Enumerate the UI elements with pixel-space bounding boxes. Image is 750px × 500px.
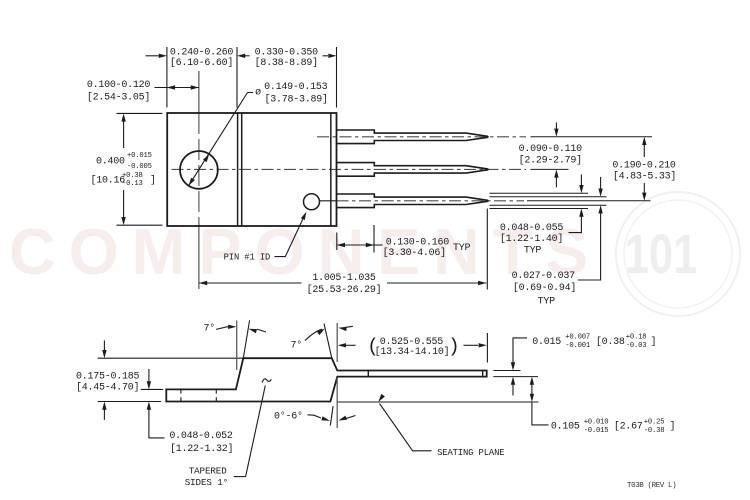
dim 0.240-0.260 extension lines [166, 47, 168, 108]
0-6 deg right arrow [345, 416, 356, 419]
seating plane leader [380, 404, 432, 451]
svg-text:+0.25: +0.25 [644, 418, 665, 426]
svg-text:T03B (REV L): T03B (REV L) [627, 482, 676, 490]
svg-text:[1.22-1.32]: [1.22-1.32] [170, 443, 233, 455]
svg-text:TYP: TYP [524, 246, 542, 257]
svg-text:0.105: 0.105 [551, 422, 580, 433]
dim 0.105 arrows and leader [531, 382, 533, 396]
dim 0.525-0.555 extension line [486, 333, 488, 363]
hidden hole edge dashes in tab [180, 389, 182, 401]
svg-text:]: ] [150, 174, 156, 186]
svg-text:7°: 7° [291, 339, 303, 351]
dim 0.015 extension lines [493, 370, 520, 372]
svg-text:[0.69-0.94]: [0.69-0.94] [513, 282, 576, 294]
svg-text:0.525-0.555: 0.525-0.555 [380, 337, 444, 348]
svg-text:0.130-0.160: 0.130-0.160 [386, 237, 450, 248]
svg-text:[10.16: [10.16 [91, 174, 126, 186]
svg-text:ø: ø [255, 87, 261, 98]
svg-text:0°-6°: 0°-6° [274, 411, 303, 423]
pin 1 marker to body edge line [320, 200, 337, 202]
svg-text:0.048-0.052: 0.048-0.052 [169, 431, 233, 442]
pin 1 leader [275, 216, 305, 257]
svg-text:-0.38: -0.38 [644, 427, 665, 435]
body bottom extension line [98, 401, 161, 403]
lead 1 centerline extension [531, 136, 653, 138]
body right inner line [330, 113, 332, 226]
left 7 deg slant extension [243, 320, 249, 358]
dim 1.005-1.035 [486, 209, 488, 290]
svg-text:[0.38: [0.38 [596, 336, 625, 348]
lead 3 centerline extension [527, 200, 651, 202]
svg-text:SEATING PLANE: SEATING PLANE [437, 448, 504, 458]
lead 3 centerline [337, 200, 525, 202]
dim 0.100-0.120 leader and arrows [155, 87, 199, 89]
body top extension line [98, 357, 243, 359]
svg-text:[25.53-26.29]: [25.53-26.29] [307, 284, 382, 296]
dim 0.048-0.055 arrows and leader [580, 175, 582, 188]
lead mid tick [367, 371, 369, 377]
dim 0.048-0.052 arrows and leader [148, 369, 150, 384]
0-6 deg leader arrow [308, 415, 322, 418]
lead 1 [337, 130, 489, 144]
svg-text:-0.015: -0.015 [584, 427, 609, 435]
svg-text:0.015: 0.015 [532, 337, 561, 348]
0-6 deg slant extension [330, 406, 333, 425]
dim 0.400 extension lines [117, 112, 163, 114]
dim 0.400 vertical dimension line with arrows [123, 119, 125, 148]
svg-text:0.240-0.260: 0.240-0.260 [170, 47, 234, 58]
svg-text:]: ] [670, 421, 676, 433]
svg-text:]: ] [651, 336, 657, 348]
svg-text:[6.10-6.60]: [6.10-6.60] [170, 57, 233, 69]
dim 0.525-0.555 arrows [340, 344, 356, 346]
svg-text:1.005-1.035: 1.005-1.035 [312, 273, 376, 284]
lead 3 wide-bottom extension [490, 208, 589, 210]
left 7 deg vertical reference [236, 321, 238, 371]
svg-text:[13.34-14.10]: [13.34-14.10] [375, 346, 450, 358]
svg-text:PIN #1 ID: PIN #1 ID [224, 253, 271, 263]
right 7 deg slant extension [324, 324, 332, 359]
lead 3 narrow-top extension [490, 196, 607, 198]
left 7 deg leader arrow [216, 327, 229, 330]
lead 3 narrow-bottom extension [490, 204, 607, 206]
svg-text:[2.67: [2.67 [614, 421, 643, 433]
0-6 deg vertical reference [336, 378, 338, 428]
lead 3 wide-top extension [490, 192, 589, 194]
svg-text:7°: 7° [204, 323, 216, 335]
right 7 deg right arrow [345, 326, 353, 327]
svg-text:[2.54-3.05]: [2.54-3.05] [87, 92, 150, 104]
svg-text:[4.83-5.33]: [4.83-5.33] [613, 170, 676, 182]
svg-text:0.027-0.037: 0.027-0.037 [512, 271, 576, 282]
right 7 deg vertical reference [336, 323, 338, 362]
svg-text:-0.005: -0.005 [127, 163, 152, 171]
hole diameter leader [189, 93, 248, 186]
right 7 deg curved leader arrow [305, 329, 322, 340]
tab boundary double line [237, 113, 239, 226]
svg-text:-0.13: -0.13 [122, 180, 143, 188]
svg-text:): ) [448, 336, 459, 358]
hole vertical centerline [198, 113, 200, 226]
svg-text:101: 101 [625, 223, 698, 285]
lead 2 [337, 163, 489, 177]
svg-text:TYP: TYP [538, 296, 556, 307]
tapered sides leader [246, 386, 266, 477]
lead 3 [337, 194, 489, 208]
svg-text:TAPERED: TAPERED [189, 466, 227, 477]
lead 1 centerline [317, 136, 526, 138]
watermark ring logo [616, 192, 740, 316]
svg-text:0.190-0.210: 0.190-0.210 [612, 161, 676, 172]
dim 0.175-0.185 arrows [103, 341, 105, 353]
lead 2 centerline extension [531, 168, 569, 170]
tab top extension line [141, 388, 163, 390]
svg-text:[3.30-4.06]: [3.30-4.06] [383, 247, 446, 259]
svg-text:0.330-0.350: 0.330-0.350 [255, 47, 319, 58]
side view package outline [166, 358, 486, 401]
svg-text:+0.38: +0.38 [122, 172, 143, 180]
svg-text:0.048-0.055: 0.048-0.055 [500, 223, 564, 234]
svg-text:+0.010: +0.010 [584, 418, 609, 426]
dim 0.015 arrows and leader [513, 338, 527, 365]
dim 0.090-0.110 arrows [555, 123, 557, 132]
pin 1 ID marker [304, 194, 320, 210]
lead tip tick [482, 371, 484, 377]
svg-text:[2.29-2.79]: [2.29-2.79] [519, 154, 582, 166]
body horizontal centerline / lead 2 centerline [172, 168, 527, 170]
svg-text:0.090-0.110: 0.090-0.110 [519, 144, 583, 155]
svg-text:0.149-0.153: 0.149-0.153 [264, 82, 328, 93]
dim 0.190-0.210 arrows [643, 143, 645, 157]
svg-text:0.400: 0.400 [96, 157, 125, 168]
svg-text:+0.18: +0.18 [626, 333, 647, 341]
svg-text:TYP: TYP [453, 243, 471, 254]
tapered sides squiggle [262, 379, 271, 383]
package body outline [167, 113, 336, 226]
svg-text:[4.45-4.70]: [4.45-4.70] [76, 382, 139, 394]
svg-text:[3.78-3.89]: [3.78-3.89] [264, 94, 327, 106]
svg-text:+0.015: +0.015 [127, 152, 152, 160]
mounting hole [180, 151, 218, 189]
dim 0.130-0.160 [336, 233, 338, 251]
seating plane line [337, 401, 538, 403]
svg-text:[1.22-1.40]: [1.22-1.40] [500, 233, 563, 245]
svg-text:0.100-0.120: 0.100-0.120 [87, 80, 151, 91]
left 7 deg right arrow [257, 329, 266, 332]
svg-text:0.175-0.185: 0.175-0.185 [76, 372, 140, 383]
svg-text:-0.03: -0.03 [626, 342, 647, 350]
svg-text:[8.38-8.89]: [8.38-8.89] [255, 57, 318, 69]
svg-text:-0.001: -0.001 [565, 342, 590, 350]
svg-text:+0.007: +0.007 [565, 333, 590, 341]
dim 0.027-0.037 arrows and leader [600, 177, 602, 191]
svg-text:SIDES 1°: SIDES 1° [185, 477, 228, 488]
dim 0.240 arrows row [146, 55, 159, 57]
